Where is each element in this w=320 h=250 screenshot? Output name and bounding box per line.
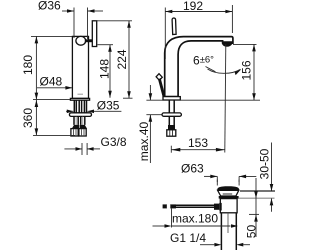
svg-text:G1 1/4: G1 1/4: [170, 231, 206, 245]
svg-text:Ø63: Ø63: [181, 162, 204, 176]
mounting nut side view: [162, 113, 181, 116]
pull rod knob (above deck): [156, 74, 165, 97]
waste tailpipe with G thread: [220, 213, 222, 250]
lever handle bar front view: [92, 21, 96, 47]
svg-text:Ø36: Ø36: [38, 0, 61, 13]
dimension Ø63: [181, 162, 256, 186]
svg-text:30-50: 30-50: [258, 148, 272, 179]
dimension 360 (left vertical lower): [21, 100, 75, 136]
dimension 224 (far right of front view): [95, 21, 133, 98]
shank lines under body front view: [74, 100, 86, 112]
svg-text:Ø48: Ø48: [40, 75, 63, 89]
rod end knob: [163, 204, 167, 208]
dimension 50: [245, 178, 260, 238]
svg-text:156: 156: [240, 60, 254, 80]
dimension 148 (right of body): [98, 45, 114, 98]
dimension max.180: [153, 209, 239, 228]
svg-text:G3/8: G3/8: [101, 135, 127, 149]
up arrow under basin line: [271, 198, 273, 211]
body bottom lip: [70, 98, 89, 100]
lever pin (black bar): [85, 39, 93, 42]
dimension Ø36: [38, 0, 103, 39]
hose crimp fittings (black): [72, 125, 79, 129]
drain plug cap dome: [217, 186, 239, 190]
shank side view: [168, 100, 170, 125]
svg-text:6±6°: 6±6°: [193, 54, 214, 68]
dimension G3/8: [64, 135, 126, 155]
dimension G1 1/4: [170, 231, 250, 247]
dimension 30-50: [258, 143, 274, 212]
plug seat flange: [219, 196, 239, 199]
svg-text:50: 50: [245, 225, 259, 239]
hose-end reference tick: [33, 134, 75, 136]
dimension 156: [233, 44, 257, 100]
svg-text:153: 153: [188, 136, 208, 150]
dimension 180 (left vertical): [21, 36, 72, 99]
svg-text:360: 360: [21, 108, 35, 128]
aerator (black): [223, 41, 233, 46]
faucet body front view: [70, 36, 89, 100]
dimension max.40: [137, 85, 152, 163]
svg-text:148: 148: [98, 59, 112, 79]
logo mark on body: [78, 93, 84, 95]
dimension Ø48 leader: [37, 75, 72, 90]
dimension Ø35: [66, 98, 121, 113]
dimension 153: [171, 136, 225, 153]
jet centerline below aerator: [225, 44, 226, 153]
svg-text:180: 180: [21, 55, 35, 75]
hoses below nut front view: [74, 116, 85, 125]
leader from 6+-6 text: [206, 67, 216, 72]
plug taper sides: [218, 190, 239, 196]
shank end fitting side view: [168, 125, 175, 130]
min-basin line (black, right of cap): [240, 190, 275, 192]
operating rod horizontal: [163, 203, 222, 211]
hose connector nuts: [71, 129, 78, 136]
deck reference tick left: [33, 99, 70, 101]
svg-text:max.40: max.40: [137, 122, 151, 162]
spout body side view: [165, 37, 233, 97]
rod-to-waste connector: [214, 204, 219, 210]
counter top line side view: [146, 99, 260, 101]
svg-text:Ø35: Ø35: [97, 98, 120, 112]
lever pivot ellipse: [76, 36, 86, 45]
svg-text:max.180: max.180: [172, 212, 218, 226]
dimension 192: [165, 0, 232, 59]
angle dimension 6+-6 arc: [206, 67, 242, 76]
counter bottom line side view: [146, 114, 162, 116]
lever stick side view: [172, 18, 176, 35]
basin line (gray): [239, 197, 275, 199]
waste body below basin: [220, 199, 237, 213]
svg-text:224: 224: [115, 49, 129, 69]
mounting nut front view: [69, 113, 91, 117]
base lip side view: [163, 97, 180, 100]
